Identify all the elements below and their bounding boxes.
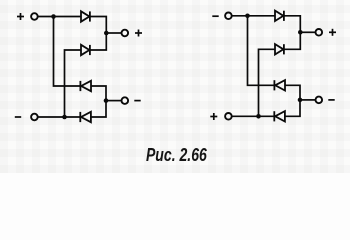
junction top input node bbox=[51, 14, 56, 19]
label output minus bbox=[328, 99, 334, 101]
wire from input terminal right-in-1 to diode VD5 anode bbox=[232, 15, 275, 17]
junction top input node bbox=[245, 14, 250, 19]
terminal negative output bbox=[316, 97, 323, 104]
wire negative output tap bbox=[300, 99, 316, 101]
label output plus bbox=[329, 29, 336, 36]
diode VD8 (points left) bbox=[274, 111, 285, 121]
terminal positive output bbox=[122, 30, 129, 37]
diode VD7 (points left) bbox=[274, 80, 285, 90]
wire VD7 anode right, down negative bus, left to VD8 anode bbox=[285, 85, 300, 116]
junction bottom input node bbox=[62, 115, 67, 120]
terminal negative output bbox=[122, 97, 129, 104]
label right input minus bbox=[212, 15, 218, 17]
terminal bottom input bbox=[31, 114, 38, 121]
wire negative output tap bbox=[106, 100, 122, 102]
wire VD6 anode left and down to bottom input node bbox=[259, 49, 276, 116]
terminal top input bbox=[31, 13, 38, 20]
junction positive output node bbox=[298, 30, 303, 35]
diode VD4 (points left) bbox=[80, 112, 91, 122]
wire from bottom input terminal to diode VD4 cathode bbox=[38, 116, 81, 118]
wire from bottom input terminal to diode VD8 cathode bbox=[232, 115, 275, 117]
terminal top input bbox=[225, 13, 232, 20]
wire VD1 cathode right, down positive bus, left to VD2 cathode bbox=[90, 17, 106, 51]
wire top input node down to VD3 cathode bbox=[54, 17, 81, 87]
junction bottom input node bbox=[256, 114, 261, 119]
label output plus bbox=[135, 30, 142, 37]
terminal positive output bbox=[316, 29, 323, 36]
wire VD3 anode right, down negative bus, left to VD4 anode bbox=[91, 86, 106, 117]
diode VD6 (points right) bbox=[275, 44, 284, 54]
terminal bottom input bbox=[225, 113, 232, 120]
caption Fig. 2.66 bbox=[39, 146, 314, 164]
label output minus bbox=[134, 100, 140, 102]
junction positive output node bbox=[104, 31, 109, 36]
diode VD2 (points right) bbox=[81, 45, 90, 55]
wire positive output tap bbox=[106, 32, 121, 34]
wire from input terminal left-in-1 to diode VD1 anode bbox=[38, 16, 81, 18]
wire positive output tap bbox=[300, 31, 315, 33]
junction negative output node bbox=[104, 98, 109, 103]
label left input minus bbox=[15, 116, 21, 118]
wire top input node down to VD7 cathode bbox=[248, 16, 275, 86]
label left input plus bbox=[17, 13, 24, 20]
label right input plus bbox=[210, 113, 217, 120]
diode VD1 (points right) bbox=[81, 11, 90, 21]
junction negative output node bbox=[298, 98, 303, 103]
diode VD5 (points right) bbox=[275, 11, 284, 21]
wire VD5 cathode right, down positive bus, left to VD6 cathode bbox=[284, 16, 300, 50]
diode VD3 (points left) bbox=[80, 81, 91, 91]
wire VD2 anode left and down to bottom input node bbox=[65, 50, 82, 117]
